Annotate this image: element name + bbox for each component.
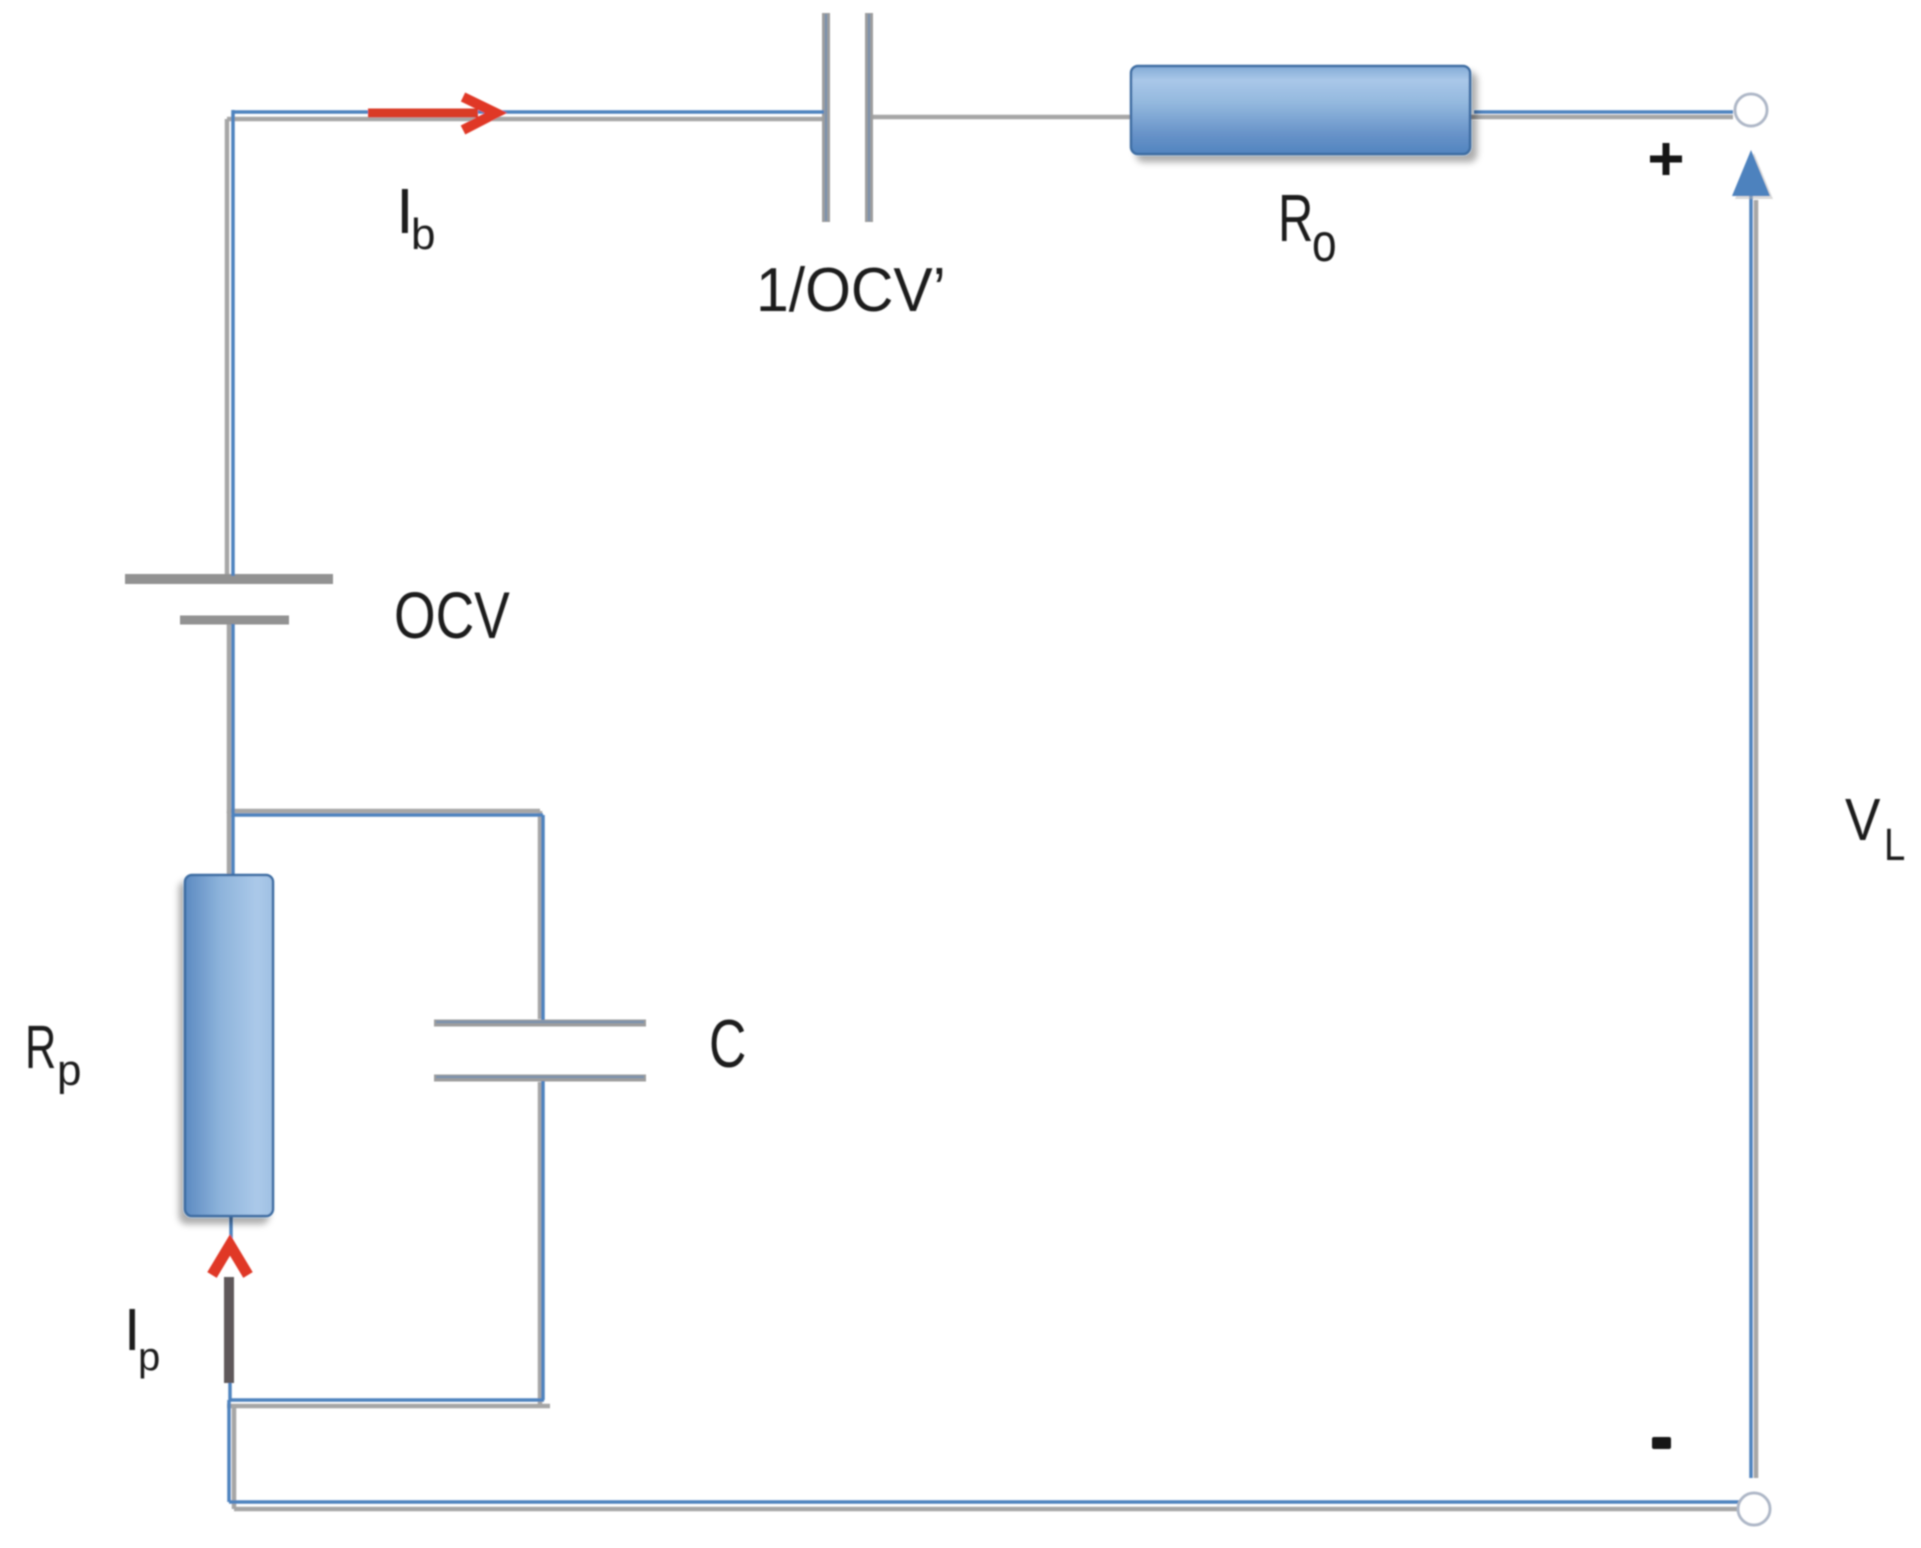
svg-text:R: R	[25, 1014, 56, 1082]
svg-text:L: L	[1884, 819, 1905, 870]
svg-text:b: b	[411, 210, 435, 259]
svg-text:OCV: OCV	[394, 579, 510, 653]
svg-text:R: R	[1278, 182, 1313, 256]
svg-text:o: o	[1312, 213, 1337, 273]
svg-text:1/OCV’: 1/OCV’	[756, 255, 946, 325]
svg-text:C: C	[709, 1005, 746, 1082]
svg-text:p: p	[138, 1335, 160, 1379]
svg-text:p: p	[57, 1046, 81, 1095]
svg-text:V: V	[1845, 786, 1881, 852]
